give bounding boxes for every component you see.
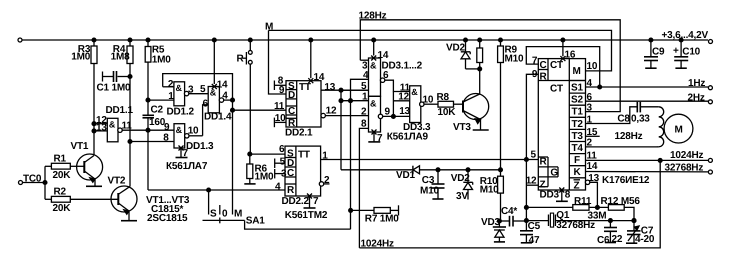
svg-text:14: 14 xyxy=(586,161,597,172)
svg-text:2Hz: 2Hz xyxy=(688,92,705,103)
svg-text:F: F xyxy=(574,155,580,166)
terminal +V xyxy=(709,40,713,44)
resistor R7 xyxy=(349,208,353,212)
motor coil xyxy=(659,107,664,147)
svg-text:1: 1 xyxy=(322,150,328,161)
svg-text:D: D xyxy=(288,90,295,101)
svg-text:C: C xyxy=(287,168,294,179)
svg-text:VD1: VD1 xyxy=(396,170,415,181)
svg-text:7: 7 xyxy=(182,148,188,159)
node C1-R4 xyxy=(128,75,132,79)
svg-text:6: 6 xyxy=(383,70,389,81)
svg-text:K: K xyxy=(573,167,581,178)
wire R3 to DD1.1 inputs and VT1 collector xyxy=(93,63,95,154)
svg-text:20K: 20K xyxy=(52,170,71,181)
svg-text:2: 2 xyxy=(361,106,367,117)
svg-text:S1: S1 xyxy=(571,83,583,94)
op gate DD3.1 xyxy=(369,58,381,96)
svg-text:5: 5 xyxy=(530,150,536,161)
svg-text:10: 10 xyxy=(188,125,199,136)
op gate DD1.4 xyxy=(208,86,219,112)
wire feedback loop DD1.2 pin2 xyxy=(163,74,233,101)
svg-text:2: 2 xyxy=(324,175,330,186)
pin12 input xyxy=(393,100,409,102)
pin7 mark DD3.2 xyxy=(372,130,377,135)
op gate DD3.2 xyxy=(369,96,381,132)
svg-text:&: & xyxy=(411,87,418,97)
capacitor C9 xyxy=(649,38,653,42)
svg-text:VD3: VD3 xyxy=(481,217,500,228)
transistor VT3 xyxy=(463,94,489,120)
node DD1.3 pin8 xyxy=(128,140,132,144)
node R5-pin1 xyxy=(146,98,150,102)
trimmer C7 xyxy=(633,221,635,231)
resistor R11 xyxy=(526,206,572,208)
node rail-R3 xyxy=(92,38,96,42)
svg-text:&: & xyxy=(176,83,183,93)
svg-text:3: 3 xyxy=(281,168,287,179)
svg-text:TT: TT xyxy=(298,149,310,160)
svg-text:TC0: TC0 xyxy=(23,173,42,184)
svg-text:0: 0 xyxy=(222,208,228,219)
varicap VD3 xyxy=(498,221,500,227)
pin14 K 32768Hz xyxy=(585,171,708,173)
svg-text:DD1.2: DD1.2 xyxy=(167,106,195,117)
svg-text:C4*: C4* xyxy=(501,206,517,217)
pin4 input xyxy=(350,79,368,229)
svg-text:4: 4 xyxy=(587,78,593,89)
svg-text:&: & xyxy=(109,119,116,129)
svg-text:9: 9 xyxy=(532,69,538,80)
pin3 stub with bar xyxy=(275,173,285,175)
svg-text:16: 16 xyxy=(565,50,576,61)
svg-text:1: 1 xyxy=(587,114,593,125)
svg-text:4: 4 xyxy=(363,70,369,81)
svg-text:8: 8 xyxy=(565,190,571,201)
svg-text:M: M xyxy=(573,66,581,77)
svg-text:DD1.4: DD1.4 xyxy=(204,112,232,123)
pin5 stub with bar xyxy=(275,162,285,164)
motor M xyxy=(664,114,693,143)
svg-text:3: 3 xyxy=(587,103,593,114)
svg-text:20K: 20K xyxy=(52,203,71,214)
svg-text:C: C xyxy=(288,106,295,117)
svg-text:6: 6 xyxy=(203,99,209,110)
svg-text:C6: C6 xyxy=(597,235,610,246)
svg-text:15: 15 xyxy=(587,127,598,138)
resistor R5 xyxy=(145,46,151,62)
pin14 mark DD2.1 xyxy=(308,78,313,83)
wire DD1.3 out to DD1.4 pin6 xyxy=(203,105,209,136)
node DD1.1 pin12 xyxy=(92,122,96,126)
wire VT3 collector xyxy=(479,69,481,94)
resistor R10 xyxy=(498,176,504,193)
svg-text:5: 5 xyxy=(280,156,286,167)
svg-text:C8: C8 xyxy=(617,114,630,125)
svg-text:9: 9 xyxy=(385,107,391,118)
capacitor C2 xyxy=(143,114,155,116)
svg-text:47: 47 xyxy=(529,235,540,246)
svg-text:VD2: VD2 xyxy=(446,42,465,53)
svg-text:CT: CT xyxy=(550,60,563,71)
wire M line xyxy=(269,30,612,71)
svg-text:1M0: 1M0 xyxy=(254,171,273,182)
svg-text:4-20: 4-20 xyxy=(635,234,655,245)
flip-flop DD2.2 xyxy=(285,146,321,196)
pin15 T3 stub xyxy=(586,135,600,137)
node DD1.1 output bubble xyxy=(118,128,122,132)
IC DD3 K176IE12 outer xyxy=(538,59,585,190)
op gate DD1.1 xyxy=(107,118,118,142)
svg-text:11: 11 xyxy=(122,120,133,131)
svg-text:TT: TT xyxy=(299,82,311,93)
svg-text:13: 13 xyxy=(588,173,599,184)
crystal Q1 line xyxy=(526,220,548,222)
resistor R12 xyxy=(608,205,624,211)
svg-text:C: C xyxy=(540,60,547,71)
svg-text:DD2.2: DD2.2 xyxy=(281,196,309,207)
svg-text:&: & xyxy=(176,125,183,135)
svg-text:14: 14 xyxy=(378,50,389,61)
svg-text:C3: C3 xyxy=(422,175,435,186)
svg-text:+: + xyxy=(673,46,679,57)
op gate DD1.3 xyxy=(174,124,185,148)
svg-text:3V: 3V xyxy=(456,191,468,202)
svg-text:13: 13 xyxy=(324,82,335,93)
svg-text:9: 9 xyxy=(279,85,285,96)
svg-text:11: 11 xyxy=(274,101,285,112)
op gate DD3.3 xyxy=(410,86,421,123)
capacitor C6 xyxy=(609,221,611,228)
svg-text:12: 12 xyxy=(526,176,537,187)
svg-text:DD2.1: DD2.1 xyxy=(285,128,313,139)
svg-text:6: 6 xyxy=(587,92,593,103)
svg-text:R: R xyxy=(540,71,548,82)
wire R9 down xyxy=(499,63,501,177)
pin1 T2 to C8 xyxy=(586,107,637,124)
svg-text:1M8: 1M8 xyxy=(111,51,130,62)
wire DD1.4 out down to SA1 M xyxy=(231,100,233,214)
svg-text:1: 1 xyxy=(362,91,368,102)
svg-text:T4: T4 xyxy=(571,143,583,154)
svg-text:0,33: 0,33 xyxy=(631,114,650,125)
right column cells xyxy=(568,59,570,190)
wire R4 down to VT2 collector xyxy=(129,63,131,186)
svg-text:R1: R1 xyxy=(53,153,66,164)
svg-text:9: 9 xyxy=(164,122,170,133)
svg-text:T2: T2 xyxy=(572,119,584,130)
pin5 input from DD2.1 pin13 xyxy=(341,89,369,91)
svg-text:7: 7 xyxy=(532,55,538,66)
pin8 stub with bar xyxy=(274,84,286,86)
svg-text:R8: R8 xyxy=(437,92,450,103)
svg-text:C2: C2 xyxy=(151,104,164,115)
transistor VT1 xyxy=(77,154,103,180)
svg-text:VD2: VD2 xyxy=(451,173,470,184)
svg-text:1024Hz: 1024Hz xyxy=(360,238,393,249)
svg-text:SA1: SA1 xyxy=(246,215,265,226)
wire 1024Hz rail xyxy=(359,160,660,248)
svg-text:+3,6...4,2V: +3,6...4,2V xyxy=(662,30,709,41)
pin4 S1 1Hz xyxy=(586,86,709,88)
svg-text:M: M xyxy=(675,125,683,136)
svg-text:8: 8 xyxy=(361,118,367,129)
node rail-R4 xyxy=(128,38,132,42)
svg-text:K561TM2: K561TM2 xyxy=(285,210,328,221)
wire R1-R2 junction xyxy=(44,166,46,199)
pin1 input xyxy=(341,100,369,102)
output 9 bubble xyxy=(378,114,382,118)
svg-text:DD3.3: DD3.3 xyxy=(403,122,431,133)
pin9 R input riser xyxy=(526,74,538,221)
pin2 T4 to coil xyxy=(586,146,657,148)
terminal TC0 xyxy=(18,180,22,184)
pin16 mark xyxy=(560,56,565,61)
svg-text:2: 2 xyxy=(587,138,593,149)
pin6 S2 2Hz xyxy=(586,100,709,102)
svg-text:T3: T3 xyxy=(572,131,584,142)
svg-text:1M0: 1M0 xyxy=(152,54,171,65)
svg-text:10K: 10K xyxy=(438,107,457,118)
svg-text:VT3: VT3 xyxy=(453,122,471,133)
svg-text:8: 8 xyxy=(163,133,169,144)
svg-text:7: 7 xyxy=(313,196,319,207)
svg-text:R: R xyxy=(539,157,547,168)
wire +V rail xyxy=(22,39,708,41)
svg-text:128Hz: 128Hz xyxy=(615,131,643,142)
resistor R9 xyxy=(499,38,503,42)
resistor R3 xyxy=(91,46,97,64)
svg-text:R11: R11 xyxy=(574,196,592,207)
svg-text:12: 12 xyxy=(326,105,337,116)
lower left cells R Z G xyxy=(547,157,549,187)
svg-text:CT: CT xyxy=(550,84,563,95)
svg-text:13: 13 xyxy=(399,106,410,117)
svg-text:10: 10 xyxy=(587,61,598,72)
resistor unlabeled VT3 collector xyxy=(478,38,482,42)
svg-text:C5: C5 xyxy=(528,221,541,232)
svg-text:6: 6 xyxy=(279,144,285,155)
svg-text:&: & xyxy=(370,60,377,70)
wire R5 to C2 xyxy=(147,62,149,115)
wire 128Hz line xyxy=(360,20,620,112)
svg-text:S: S xyxy=(210,208,217,219)
svg-text:22: 22 xyxy=(611,234,622,245)
flip-flop DD2.1 xyxy=(286,81,321,127)
svg-text:4: 4 xyxy=(275,181,281,192)
switch SA1 xyxy=(208,190,210,215)
svg-text:R7 1M0: R7 1M0 xyxy=(365,214,399,225)
wire M to DD2.1 pin9 xyxy=(269,30,287,94)
svg-text:R: R xyxy=(237,53,245,64)
svg-text:VT2: VT2 xyxy=(107,175,125,186)
svg-text:К561ЛА9: К561ЛА9 xyxy=(387,131,429,142)
pin2 output stub xyxy=(319,182,323,186)
svg-text:C9: C9 xyxy=(652,47,665,58)
svg-text:10: 10 xyxy=(423,94,434,105)
svg-text:R: R xyxy=(287,185,295,196)
svg-text:5: 5 xyxy=(200,84,206,95)
svg-text:&: & xyxy=(370,99,377,109)
capacitor C8 xyxy=(636,102,638,113)
pin12 output xyxy=(321,113,325,117)
wire VD1 line xyxy=(341,169,412,171)
svg-text:7: 7 xyxy=(377,133,383,144)
svg-text:R12 M56: R12 M56 xyxy=(600,196,640,207)
capacitor C1 xyxy=(102,71,104,81)
node DD1.1 pin13 xyxy=(92,129,96,133)
pin8 input xyxy=(359,128,368,248)
svg-text:C10: C10 xyxy=(682,47,700,58)
svg-text:DD1.3: DD1.3 xyxy=(186,141,214,152)
pin10 stub with bar xyxy=(274,121,286,123)
resistor R4 xyxy=(127,46,133,64)
left cells C R top xyxy=(547,59,549,81)
svg-text:VT1: VT1 xyxy=(70,141,88,152)
svg-text:4: 4 xyxy=(222,90,228,101)
node R switch to DD2.2 S xyxy=(248,152,252,156)
transistor VT2 xyxy=(111,186,137,212)
wire DD2.1 pin13 down to VD1 xyxy=(340,90,342,170)
pin7 C input xyxy=(526,47,599,87)
pin5 label + node xyxy=(524,158,528,162)
resistor R8 xyxy=(438,101,454,107)
svg-text:1Hz: 1Hz xyxy=(688,78,705,89)
svg-text:10: 10 xyxy=(275,113,286,124)
output 6 bubble xyxy=(380,78,384,82)
capacitor C4 xyxy=(497,219,501,223)
svg-text:M: M xyxy=(234,208,242,219)
svg-text:C1 1M0: C1 1M0 xyxy=(97,82,131,93)
pin1 output long wire xyxy=(321,158,539,160)
node 9-wire riser xyxy=(392,115,396,119)
svg-text:K176ИЕ12: K176ИЕ12 xyxy=(602,175,650,186)
svg-text:G: G xyxy=(550,167,558,178)
node DD1.4 out loop xyxy=(231,98,235,102)
zener VD2 bottom xyxy=(466,168,470,172)
pin7 ground stub DD1.3 xyxy=(178,145,183,150)
node SA1 S branch xyxy=(207,188,211,192)
svg-text:DD1.1: DD1.1 xyxy=(106,105,134,116)
pin14 mark DD3 xyxy=(371,56,376,61)
capacitor C5 xyxy=(525,221,527,231)
svg-text:2: 2 xyxy=(168,79,174,90)
svg-text:11: 11 xyxy=(400,82,411,93)
capacitor C10 xyxy=(679,38,683,42)
svg-text:M10: M10 xyxy=(480,184,499,195)
svg-text:Z: Z xyxy=(573,180,579,191)
svg-text:1: 1 xyxy=(168,91,174,102)
terminal top-left input xyxy=(18,38,22,42)
pin8 mark DD3 xyxy=(559,188,564,193)
svg-text:1024Hz: 1024Hz xyxy=(670,150,703,161)
pin13 Z output bubble xyxy=(585,180,589,184)
pin11 F 1024Hz xyxy=(585,159,708,161)
svg-text:T1: T1 xyxy=(572,107,584,118)
svg-text:2SC1815: 2SC1815 xyxy=(147,213,188,224)
op gate DD1.2 xyxy=(174,82,185,106)
output 10 bubble xyxy=(420,102,424,106)
wire C2 down to DD2.2 pin4 xyxy=(147,118,149,190)
svg-text:S2: S2 xyxy=(571,95,583,106)
capacitor C3 xyxy=(436,168,440,172)
switch R (reset contacts) xyxy=(248,38,252,42)
svg-text:DD3: DD3 xyxy=(539,190,559,201)
node branch DD2.1 C xyxy=(231,108,235,112)
zener VD2 top xyxy=(464,38,468,42)
svg-text:32768Hz: 32768Hz xyxy=(556,220,595,231)
svg-text:32768Hz: 32768Hz xyxy=(664,162,703,173)
node rail-R5 xyxy=(146,38,150,42)
svg-text:R2: R2 xyxy=(53,186,66,197)
pin14 mark DD1.4 xyxy=(212,84,217,89)
svg-text:M10: M10 xyxy=(420,186,439,197)
resistor R2 xyxy=(51,196,70,202)
pin12 input xyxy=(526,184,538,186)
svg-text:К561ЛА7: К561ЛА7 xyxy=(166,161,208,172)
resistor R6 xyxy=(247,164,253,179)
resistor R1 xyxy=(51,163,70,169)
svg-text:1M0: 1M0 xyxy=(71,51,90,62)
node C2 line DD1.1 out xyxy=(146,128,150,132)
pin7 mark DD2.2 xyxy=(307,193,312,198)
svg-text:13: 13 xyxy=(96,123,107,134)
diode VD1 xyxy=(412,166,414,175)
svg-text:M10: M10 xyxy=(505,54,524,65)
pin13 output xyxy=(321,89,369,91)
svg-text:14: 14 xyxy=(314,72,325,83)
svg-text:5: 5 xyxy=(361,81,367,92)
svg-text:14: 14 xyxy=(217,79,228,90)
